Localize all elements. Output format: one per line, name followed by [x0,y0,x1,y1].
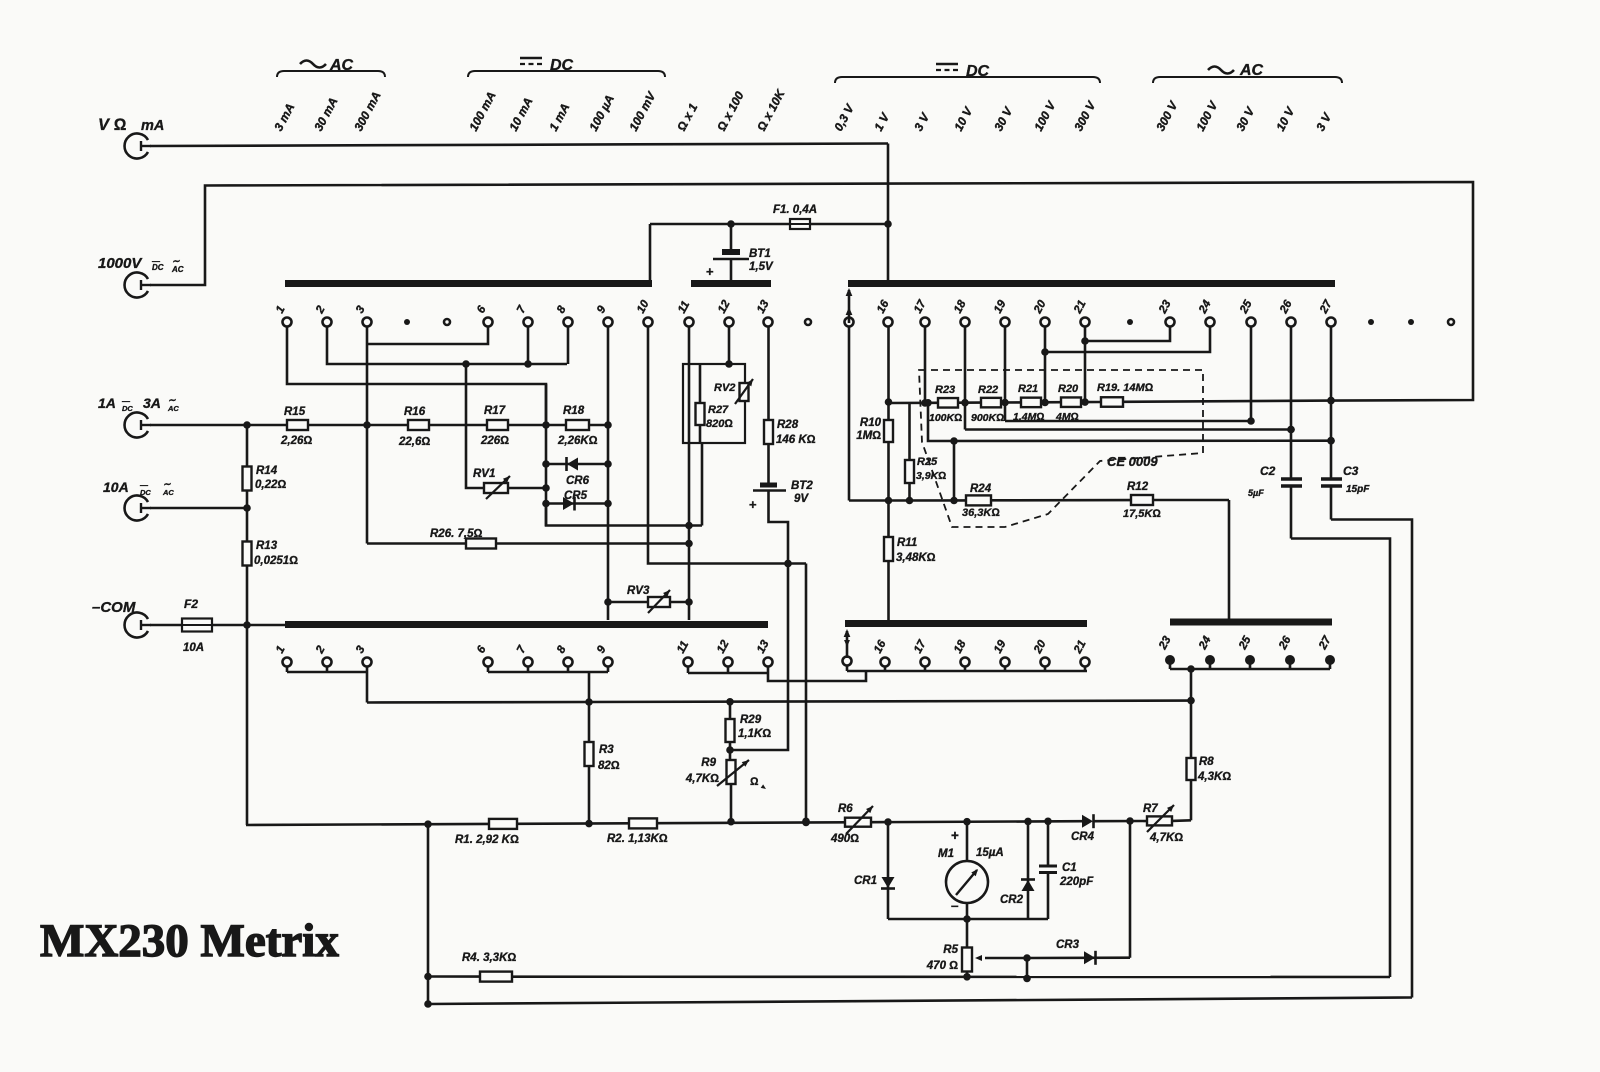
wire V1 elbow to R27 box bottom [546,504,702,526]
wire contact A2 to contact A7/A8 row [327,327,567,365]
svg-text:R4. 3,3KΩ: R4. 3,3KΩ [462,952,516,964]
fuse F1 0.4A line [650,223,888,226]
resistor R28 146K [764,420,773,444]
svg-text:0,22Ω: 0,22Ω [255,479,286,491]
svg-text:4,7KΩ: 4,7KΩ [1149,832,1183,844]
resistor R12 17.5K [1131,495,1153,505]
svg-text:RV1: RV1 [473,468,495,480]
wire contact A12 to box [728,327,731,365]
svg-text:BT1: BT1 [749,248,771,260]
svg-text:146 KΩ: 146 KΩ [776,434,816,446]
svg-text:mA: mA [141,118,164,134]
svg-text:DC: DC [966,63,990,80]
svg-text:R24: R24 [970,483,992,495]
svg-text:R12: R12 [1127,481,1149,493]
range labels AC volts [1153,98,1181,133]
resistor R18 2.26K [566,420,589,430]
svg-text:820Ω: 820Ω [706,418,733,430]
svg-text:+: + [749,497,757,512]
resistor R3 82 ohm [585,742,594,766]
svg-text:15µA: 15µA [976,847,1004,859]
range labels DC current / ohms [466,89,498,133]
range labels AC current [271,101,297,133]
wire drop B3 to common line [366,672,369,703]
resistor R1 2.92K [489,819,517,829]
wire vertical top bus to F1 node and switch bar [887,144,890,282]
svg-text:DC: DC [122,404,133,413]
divider tap line 3 [928,403,1331,441]
svg-text:R28: R28 [777,419,799,431]
svg-text:+: + [951,828,959,843]
svg-text:R18: R18 [563,405,585,417]
potentiometer R6 [845,818,871,827]
resistor R27 820 ohm [699,364,702,403]
svg-text:R19. 14MΩ: R19. 14MΩ [1097,382,1154,394]
resistor R2 1.13K [629,818,657,828]
svg-text:F2: F2 [184,597,198,611]
svg-text:–COM: –COM [92,599,136,616]
svg-text:220pF: 220pF [1059,876,1094,888]
left bottom riser [427,824,430,1004]
svg-text:100KΩ: 100KΩ [929,412,962,424]
svg-text:CR6: CR6 [566,475,590,487]
svg-text:M1: M1 [938,848,954,860]
resistor R8 4.3K [1187,758,1196,780]
svg-text:2,26KΩ: 2,26KΩ [557,435,598,447]
wire contact A3 down through R15/R16 junction to R26 [366,327,369,544]
capacitor C1 220pF [1047,821,1050,865]
svg-text:R13: R13 [256,540,278,552]
wire BT2 rail down to main line [805,564,808,822]
resistor R10 1M [887,327,890,421]
input terminal -COM [125,613,148,638]
wire group B11-B13 [687,667,690,674]
wafer B right contacts 23-27 [1165,655,1175,665]
wire contact A19 stem through to tap line 1 [1004,327,1007,422]
svg-text:CR5: CR5 [564,490,588,502]
wire group B1-B3 [286,667,289,673]
resistor R15 2.26 ohm [287,420,308,430]
svg-text:R14: R14 [256,465,278,477]
wafer B wiper arrow [846,631,849,658]
svg-text:R6: R6 [838,803,853,815]
svg-text:R9: R9 [701,757,716,769]
wafer A wiper arrow [848,290,851,323]
svg-text:C1: C1 [1062,862,1077,874]
potentiometer RV2 [740,383,749,401]
input terminal 10A DC/AC [125,496,148,521]
bottom loop line 1 [428,975,480,978]
diode CR4 [1082,815,1093,828]
potentiometer R5 470 ohm [966,919,969,948]
svg-text:470 Ω: 470 Ω [926,960,958,972]
wire contact A25 stem [1250,327,1253,422]
diode CR2 [1027,821,1030,919]
svg-text:DC: DC [152,263,164,272]
svg-text:82Ω: 82Ω [598,760,620,772]
resistor R4 3.3K [480,972,512,982]
range labels DC volts [831,101,857,133]
node dots row A2 [462,360,470,368]
svg-text:Ω: Ω [750,776,759,788]
wire stems contacts A17 A20 A21 [924,327,927,403]
divider tap line 1 [1005,420,1251,423]
potentiometer R7 4.7K [1147,816,1172,825]
svg-text:+: + [706,264,714,279]
resistor R16 22.6 ohm [408,420,429,430]
input terminal V-Ohm-mA [125,134,148,159]
svg-text:5µF: 5µF [1248,488,1264,498]
rotary switch wafer A bar (middle segment) [691,280,771,287]
wire 1000V terminal loop to right side [150,182,1473,401]
wire R5 junction drop [1026,958,1029,978]
trimmer box with RV2 and R27 [683,364,745,443]
rotary switch wafer B bar left [285,621,768,628]
svg-text:1MΩ: 1MΩ [856,430,881,442]
resistor R17 226 ohm [487,420,508,430]
range bracket AC current [277,71,385,77]
svg-text:3,9KΩ: 3,9KΩ [916,470,946,482]
wire right wafer column to R8 [1190,669,1193,758]
svg-text:R21: R21 [1018,383,1038,395]
svg-text:2,26Ω: 2,26Ω [280,435,312,447]
battery BT1 1.5V [730,224,733,250]
fuse F1 [790,219,810,229]
svg-text:R10: R10 [860,417,882,429]
svg-text:R8: R8 [1199,756,1214,768]
svg-text:MX230 Metrix: MX230 Metrix [40,915,339,967]
resistor R19 14M [1101,397,1123,407]
resistor R21 1.4M [1021,398,1041,408]
svg-text:R16: R16 [404,406,426,418]
wire group B16-B21 [846,666,849,672]
svg-text:R7: R7 [1143,803,1158,815]
resistor R26 7.5 ohm [367,542,689,545]
svg-text:R20: R20 [1058,383,1079,395]
drop tap line 3 to measure line [953,441,956,501]
battery BT2 9V [767,444,770,483]
resistor R23 100K [938,398,958,408]
meter bottom line [888,918,1048,921]
wire contact A9 column V2 [607,327,610,621]
resistor R14 0.22 ohm [246,425,249,466]
wire contact A13 to R28 [767,327,770,421]
svg-text:900KΩ: 900KΩ [971,412,1004,424]
svg-text:DC: DC [550,57,574,74]
svg-text:226Ω: 226Ω [480,435,509,447]
fuse F2 10A [150,624,182,627]
svg-text:10A: 10A [183,642,204,654]
resistor chain line 1A input [150,424,287,427]
svg-text:R29: R29 [740,714,762,726]
resistor R13 0.0251 ohm [246,491,249,541]
svg-text:RV3: RV3 [627,585,650,597]
wire wafer A wiper down to measure line [848,327,851,501]
wire group B6-B9 [487,667,490,673]
wire contact A10 to BT2 minus rail [648,327,806,564]
svg-text:R3: R3 [599,744,614,756]
rotary switch wafer A bar (right segment) [848,280,1335,287]
svg-text:CR4: CR4 [1071,831,1095,843]
range bracket DC current [468,71,665,77]
diode CR1 [887,822,890,919]
svg-text:C2: C2 [1260,464,1276,478]
wire drop to R3 [588,672,591,742]
svg-text:R1. 2,92 KΩ: R1. 2,92 KΩ [455,834,519,846]
svg-text:17,5KΩ: 17,5KΩ [1123,508,1161,520]
potentiometer RV1 [466,364,484,488]
svg-text:CR2: CR2 [1000,894,1024,906]
svg-text:1,1KΩ: 1,1KΩ [738,728,771,740]
svg-text:CE 0009: CE 0009 [1107,454,1158,469]
svg-text:1,5V: 1,5V [749,261,774,273]
svg-text:C3: C3 [1343,464,1359,478]
wire COM bus down left side [246,566,249,625]
rotary switch wafer A bar (left segment) [285,280,652,287]
svg-text:R15: R15 [284,406,306,418]
resistor R29 1.1K [729,702,732,719]
svg-text:R17: R17 [484,405,506,417]
range bracket AC volts [1153,77,1342,83]
svg-text:CR1: CR1 [854,875,877,887]
svg-text:3,48KΩ: 3,48KΩ [896,552,936,564]
svg-text:RV2: RV2 [714,382,735,394]
svg-text:490Ω: 490Ω [830,833,859,845]
wire junction column V1 [545,384,548,526]
diode CR5 [546,502,608,505]
svg-text:R25: R25 [917,456,938,468]
rotary switch wafer B bar middle [845,620,1087,627]
resistor R11 3.48K [887,442,890,537]
svg-text:10A: 10A [103,479,129,495]
input terminal 1000V DC/AC [125,273,148,298]
svg-text:4,3KΩ: 4,3KΩ [1197,771,1231,783]
divider tap line 2 [965,428,1291,431]
capacitor C2 [1281,477,1302,480]
wire R12 to wafer B bar [1228,500,1231,619]
resistor R25 3.9K [908,403,911,460]
svg-text:R27: R27 [708,404,729,416]
svg-text:R11: R11 [897,537,917,549]
svg-text:1000V: 1000V [98,255,143,272]
wire stem contact A8 [567,327,570,365]
svg-text:CR3: CR3 [1056,939,1080,951]
input terminal 1A DC / 3A AC [125,412,148,437]
svg-text:AC: AC [1239,62,1264,79]
meter M1 15uA [966,822,969,861]
bottom loop line 2 [428,998,1412,1005]
svg-text:AC: AC [167,404,179,413]
wire link to right wafer group [768,671,866,681]
potentiometer R9 4.7K [729,742,732,760]
svg-text:3A: 3A [143,395,161,411]
wafer B contacts with numbers [283,658,292,667]
wire contact A1 to R17/R18 junction [287,327,546,426]
svg-text:9V: 9V [794,493,809,505]
svg-text:15pF: 15pF [1346,484,1370,495]
svg-text:R23: R23 [935,384,955,396]
resistor R24 36.3K [966,495,991,505]
svg-text:BT2: BT2 [791,480,813,492]
common switch line [367,701,1191,703]
wire contact A24 jumper [1045,327,1210,353]
svg-text:R26. 7,5Ω: R26. 7,5Ω [430,528,482,540]
wire stem contact A7 [527,327,530,365]
potentiometer RV3 [608,601,689,604]
svg-text:AC: AC [171,265,184,274]
dashed CE 0009 module outline [919,370,1203,527]
wire contact A11 column [688,327,691,621]
svg-text:V Ω: V Ω [98,116,127,134]
wafer A contacts 1-27 with numbers [283,318,292,327]
wire 10A terminal to chain [150,507,247,510]
svg-text:R5: R5 [943,944,958,956]
svg-text:DC: DC [140,488,151,497]
svg-text:22,6Ω: 22,6Ω [398,436,430,448]
resistor R20 4M [1061,397,1081,407]
wire V terminal to top bus [150,144,888,147]
svg-text:R22: R22 [978,384,998,396]
range bracket DC volts [835,77,1100,83]
wire group B23-B27 [1169,662,1172,669]
resistor R22 900K [981,398,1001,408]
svg-text:R2. 1,13KΩ: R2. 1,13KΩ [607,833,668,845]
high voltage divider line [889,401,939,404]
diode CR6 [546,463,608,466]
svg-text:AC: AC [329,57,354,74]
svg-text:4,7KΩ: 4,7KΩ [685,773,719,785]
svg-text:36,3KΩ: 36,3KΩ [962,507,1000,519]
wire CR3 riser [1129,821,1132,958]
measure line with R24 R12 [889,499,967,502]
wire BT2 minus to R29/R9 tap [730,491,788,750]
rotary switch wafer B bar right [1170,619,1332,626]
svg-text:0,0251Ω: 0,0251Ω [254,555,298,567]
wire contact A27 column with C3 [1330,327,1333,479]
svg-text:1A: 1A [98,395,116,411]
wire contact A23 jumper [1085,327,1170,342]
wire box bottom drop [701,443,704,526]
diode CR3 [1027,956,1130,959]
svg-text:–: – [951,898,959,913]
wire contact A18 stem through to tap line 2 [964,327,967,430]
capacitor C3 [1321,477,1342,480]
svg-text:AC: AC [162,488,174,497]
main bottom analog line [246,824,489,825]
wafer A unused contact dots [404,319,410,325]
svg-text:F1. 0,4A: F1. 0,4A [773,204,817,216]
wire contact A6 to contact A3 leg [367,327,488,345]
wire contact A26 column with C2 [1290,327,1293,479]
